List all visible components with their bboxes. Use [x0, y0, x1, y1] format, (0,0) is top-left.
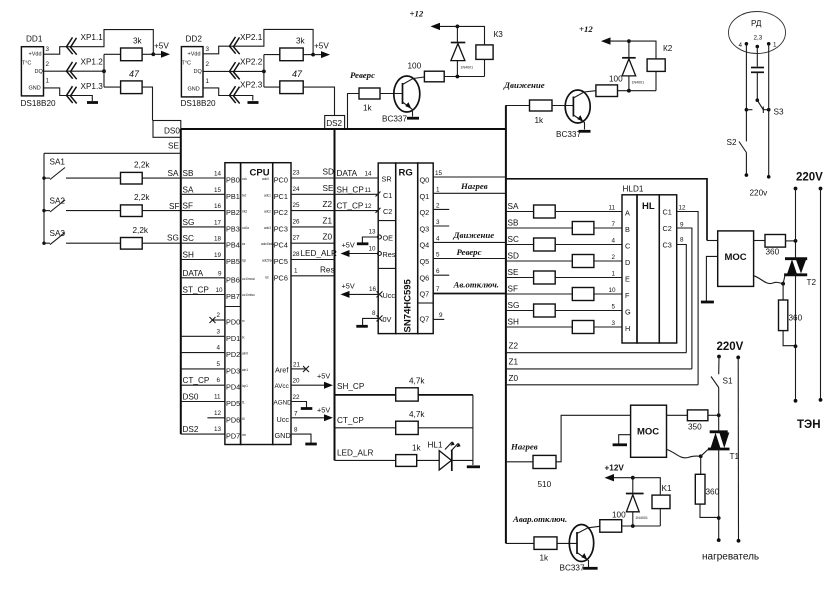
svg-text:xck: xck	[242, 177, 247, 181]
wire PC0 net SD / pin 23	[291, 168, 335, 179]
svg-text:SD: SD	[508, 252, 519, 261]
svg-text:icp1: icp1	[242, 384, 248, 388]
svg-text:14: 14	[214, 171, 222, 178]
display HLD1 outline	[622, 185, 677, 344]
wire row PD1 / pin 3	[181, 328, 225, 336]
wire bus to 510 resistor	[506, 461, 533, 463]
svg-text:DS18B20: DS18B20	[181, 99, 216, 108]
resistor 47 (DD2 series)	[264, 86, 280, 88]
wire Q7 pin 7 net Ав.отключ	[433, 280, 506, 294]
svg-text:17: 17	[214, 219, 222, 226]
svg-text:BC337: BC337	[560, 564, 585, 573]
svg-text:360: 360	[706, 488, 720, 497]
wire Q1 pin 1 net Нагрев	[433, 181, 506, 193]
svg-text:3k: 3k	[296, 37, 306, 46]
wire PC2 net Z2 / pin 25	[291, 200, 335, 211]
node +5V junction DD1	[151, 52, 155, 56]
svg-text:6: 6	[217, 377, 221, 384]
svg-text:10: 10	[216, 287, 224, 294]
svg-text:S1: S1	[723, 377, 733, 386]
svg-text:Z2: Z2	[323, 200, 333, 209]
svg-text:ain0: ain0	[242, 352, 248, 356]
svg-text:PD5: PD5	[226, 399, 240, 408]
svg-text:2,2k: 2,2k	[134, 193, 150, 202]
svg-text:SA1: SA1	[50, 158, 66, 167]
node DS0 label box	[153, 121, 181, 138]
svg-text:Q4: Q4	[420, 241, 430, 250]
svg-text:2: 2	[612, 254, 616, 261]
svg-text:SN74HC595: SN74HC595	[403, 278, 414, 332]
optocoupler MOC (motor)	[718, 231, 754, 287]
svg-text:Ucc: Ucc	[383, 291, 396, 300]
svg-text:4: 4	[217, 345, 221, 352]
svg-text:adc2: adc2	[264, 210, 271, 214]
svg-text:100: 100	[609, 75, 623, 84]
wire row SH / pin 19	[181, 251, 225, 260]
svg-text:Q7: Q7	[420, 315, 430, 324]
triac T2	[783, 259, 816, 287]
svg-text:15: 15	[214, 187, 222, 194]
svg-text:DQ: DQ	[194, 69, 203, 75]
svg-text:A: A	[625, 209, 630, 218]
wire row SG with resistor to pin G 5	[506, 301, 622, 317]
resistor 510	[533, 455, 556, 468]
svg-text:OE: OE	[383, 234, 394, 243]
resistor 2,2k (SA1)	[66, 177, 121, 179]
power +5V arrow AVcc / pin 20	[291, 372, 333, 389]
svg-text:DS2: DS2	[183, 425, 199, 434]
wire row Z0 to C1	[506, 374, 698, 385]
svg-text:SA: SA	[168, 169, 179, 178]
wire Q4 pin 4 net Движение	[433, 230, 506, 242]
svg-text:D: D	[625, 258, 630, 267]
svg-text:2,3: 2,3	[754, 35, 763, 42]
svg-text:К3: К3	[494, 30, 504, 39]
node diode bottom junction K2	[627, 89, 631, 93]
svg-text:HL: HL	[642, 201, 655, 212]
svg-text:MOC: MOC	[637, 427, 659, 438]
svg-text:SE: SE	[508, 268, 519, 277]
svg-text:XP1.1: XP1.1	[81, 33, 104, 42]
ground (motor MOC)	[701, 301, 714, 304]
svg-text:Нагрев: Нагрев	[510, 442, 538, 452]
optocoupler MOC (heater)	[631, 405, 667, 457]
resistor 3k (DD2 pullup)	[264, 54, 280, 56]
svg-text:HLD1: HLD1	[623, 185, 644, 194]
wire row SB / pin 14	[181, 169, 225, 178]
svg-text:C: C	[625, 242, 630, 251]
pin Ucc 16 to +5V	[341, 282, 396, 301]
svg-text:16: 16	[369, 286, 377, 293]
svg-text:220V: 220V	[717, 341, 744, 353]
wire row ST_CP / pin 10	[181, 286, 225, 295]
svg-text:PD3: PD3	[226, 366, 240, 375]
relay K3	[438, 26, 503, 76]
svg-text:2,2k: 2,2k	[134, 161, 150, 170]
svg-text:9: 9	[680, 222, 684, 229]
svg-text:PC6: PC6	[274, 273, 288, 282]
svg-text:Авар.отключ.: Авар.отключ.	[512, 514, 567, 524]
svg-text:К2: К2	[663, 44, 673, 53]
svg-text:SC: SC	[508, 235, 519, 244]
svg-text:PB6: PB6	[226, 275, 240, 284]
ground GND / pin 8	[291, 427, 317, 444]
svg-text:10: 10	[609, 287, 617, 294]
svg-text:8: 8	[372, 310, 376, 317]
svg-text:PC3: PC3	[274, 224, 288, 233]
svg-text:PD0: PD0	[226, 318, 240, 327]
svg-text:1: 1	[206, 78, 210, 85]
wire PC6 net Res / pin 1	[291, 265, 335, 276]
svg-text:Движение: Движение	[503, 80, 545, 90]
node rail junction below T2	[794, 344, 798, 348]
transistor Q1 BC337 (Авар.отключ)	[560, 525, 600, 573]
svg-text:CT_CP: CT_CP	[337, 416, 364, 425]
wire left heater rail between junctions	[718, 415, 720, 540]
wire bus inner vertical DS2	[334, 129, 336, 460]
node 220V rail junction at 350	[717, 413, 721, 417]
svg-text:T2: T2	[807, 278, 817, 287]
terminal motor right 220v	[767, 175, 771, 179]
pin OE 13 tied low	[357, 229, 393, 244]
resistor 360 (T1 gate) vertical	[695, 456, 719, 517]
resistor 100 (Реверс collector)	[424, 71, 444, 82]
svg-text:+Vdd: +Vdd	[29, 52, 42, 58]
node +5V junction DD2	[311, 53, 315, 57]
svg-text:rst: rst	[265, 275, 269, 279]
pin Q2 stub 2	[433, 202, 449, 209]
svg-text:SE: SE	[168, 142, 179, 151]
svg-text:C1: C1	[383, 191, 392, 200]
switch S2	[727, 138, 747, 175]
terminal 220V right pair	[794, 187, 823, 191]
svg-text:B: B	[625, 225, 630, 234]
wire PC5 net LED_ALR / pin 28	[291, 249, 337, 260]
node diode bottom junction K3	[456, 75, 460, 79]
svg-text:SE: SE	[323, 184, 334, 193]
svg-text:SG: SG	[183, 218, 195, 227]
pin Q3 stub 3	[433, 219, 449, 226]
svg-text:ТЭН: ТЭН	[797, 419, 821, 431]
wire DD1 pin1 to ground	[44, 88, 93, 101]
svg-text:7: 7	[436, 286, 440, 293]
node DQ2 junction	[262, 70, 266, 74]
wire row LED_ALR 1k	[335, 444, 440, 467]
svg-text:adc3: adc3	[264, 226, 271, 230]
svg-text:26: 26	[293, 218, 301, 225]
svg-text:SF: SF	[183, 202, 193, 211]
svg-text:PC4: PC4	[274, 241, 288, 250]
wire DD1 DQ (pin2)	[44, 70, 105, 72]
svg-text:47: 47	[292, 69, 303, 79]
svg-text:510: 510	[538, 480, 552, 489]
svg-text:3: 3	[46, 46, 50, 53]
transistor Q2 BC337 (Движение)	[556, 90, 596, 139]
svg-text:int2: int2	[242, 210, 247, 214]
connector XP2.2	[230, 62, 240, 79]
svg-text:24: 24	[293, 186, 301, 193]
svg-text:XP1.3: XP1.3	[81, 82, 104, 91]
svg-text:Q1: Q1	[420, 192, 430, 201]
svg-text:16: 16	[214, 203, 222, 210]
svg-text:11: 11	[609, 205, 616, 212]
pin Q7' stub 9	[433, 312, 444, 319]
wire input DATA pin 14 to SR	[335, 169, 392, 184]
wire right heater rail	[737, 357, 739, 540]
transistor Q3 BC337 (Реверс)	[382, 76, 424, 124]
svg-text:4,7k: 4,7k	[409, 410, 425, 419]
node T1 gate junction	[699, 454, 703, 458]
svg-text:adc1: adc1	[264, 193, 271, 197]
svg-text:GND: GND	[188, 87, 200, 93]
svg-text:Aref: Aref	[275, 365, 289, 374]
svg-text:PD7: PD7	[226, 432, 240, 441]
svg-text:0V: 0V	[383, 315, 392, 324]
svg-text:DD1: DD1	[26, 35, 43, 44]
svg-text:PB2: PB2	[226, 208, 240, 217]
svg-text:G: G	[625, 308, 631, 317]
svg-text:DS0: DS0	[164, 127, 180, 136]
wire SA1 to bus, net SA	[142, 177, 181, 179]
power +5V arrow Ucc / pin 7	[291, 406, 333, 422]
svg-text:AGND: AGND	[274, 399, 293, 406]
switch S3	[756, 98, 784, 116]
svg-text:adc4/sda: adc4/sda	[261, 242, 274, 246]
node DQ1 junction	[102, 69, 106, 73]
led HL1	[428, 441, 473, 472]
pin PD6 stub / pin 12	[207, 410, 225, 418]
wire row SC with resistor to pin C 4	[506, 235, 622, 251]
terminal ТЭН pair	[794, 398, 823, 403]
svg-text:SF: SF	[169, 202, 179, 211]
wire 220V right rail	[820, 189, 822, 400]
ground (Движение emitter)	[579, 130, 591, 133]
svg-text:T°C: T°C	[22, 61, 32, 67]
svg-text:+5V: +5V	[342, 282, 355, 291]
wire MOC to T1 gate (wavy)	[667, 449, 701, 457]
svg-text:XP2.3: XP2.3	[240, 81, 263, 90]
resistor 100 (K1 collector)	[600, 520, 622, 533]
svg-text:2: 2	[206, 61, 210, 68]
svg-text:28: 28	[293, 251, 301, 258]
svg-text:oc1/mosi: oc1/mosi	[242, 277, 255, 281]
svg-text:100: 100	[408, 62, 422, 71]
svg-text:oc0a: oc0a	[242, 226, 249, 230]
svg-text:SD: SD	[323, 168, 334, 177]
resistor 2,2k (SA2)	[66, 210, 121, 212]
svg-text:1k: 1k	[540, 554, 550, 563]
connector XP1.3	[67, 86, 77, 103]
svg-text:7: 7	[294, 410, 298, 417]
svg-text:4: 4	[739, 42, 743, 49]
terminal 220V bottom pair	[717, 355, 740, 360]
svg-text:C2: C2	[663, 224, 672, 233]
wire row SA / pin 15	[181, 185, 225, 194]
svg-text:Q2: Q2	[420, 208, 430, 217]
svg-text:3: 3	[612, 320, 616, 327]
svg-text:T°C: T°C	[182, 61, 192, 67]
relay K1	[612, 478, 672, 526]
wire bus to 1k	[506, 542, 534, 544]
resistor 100 (Движение collector)	[596, 85, 618, 97]
svg-text:t0: t0	[242, 417, 245, 421]
wire row SE with resistor to pin E 1	[506, 268, 622, 284]
wire bus top edge	[181, 128, 506, 130]
wire row PD2 / pin 4	[181, 345, 225, 353]
svg-text:PB4: PB4	[226, 241, 240, 250]
svg-text:2: 2	[46, 61, 50, 68]
pin Aref no-connect / pin 21	[291, 361, 309, 372]
resistor 360 (T2 gate) vertical	[779, 284, 803, 346]
switch SA3	[42, 229, 65, 245]
wire DQ node vertical	[103, 54, 105, 87]
ground (K1 emitter)	[583, 567, 598, 570]
svg-text:PC5: PC5	[274, 257, 288, 266]
svg-text:GND: GND	[29, 86, 41, 92]
wire motor pins 2,3 (middle)	[756, 45, 760, 67]
svg-text:6: 6	[436, 268, 440, 275]
svg-text:2,2k: 2,2k	[133, 226, 149, 235]
svg-text:1N4001: 1N4001	[635, 516, 648, 520]
wire 47 to DS0 entry	[142, 87, 152, 120]
svg-text:Z0: Z0	[323, 233, 333, 242]
resistor 1k (K1 base)	[534, 537, 557, 550]
resistor 350 (T1 gate feed)	[667, 414, 688, 416]
svg-text:PD2: PD2	[226, 350, 240, 359]
svg-text:PD1: PD1	[226, 334, 240, 343]
svg-text:Z1: Z1	[323, 216, 333, 225]
svg-text:220v: 220v	[750, 189, 769, 198]
wire LED common ground vertical	[472, 395, 474, 465]
pin C1 12 wire to Z0	[663, 205, 699, 385]
wire DD2 DQ (pin2)	[203, 70, 264, 72]
svg-text:1: 1	[773, 42, 777, 49]
ground (DD2)	[248, 101, 259, 104]
svg-text:Реверс: Реверс	[457, 247, 482, 257]
svg-text:12: 12	[365, 203, 373, 210]
resistor 2,2k (SA3)	[66, 242, 121, 244]
triac T1	[701, 432, 740, 461]
pin Q6 stub 6	[433, 268, 449, 275]
wire row PD3 / pin 5	[181, 361, 225, 369]
svg-text:adc0: adc0	[262, 177, 269, 181]
motor РД ellipse	[729, 12, 786, 54]
wire bus to 1k base resistor	[348, 94, 360, 130]
svg-text:нагреватель: нагреватель	[702, 552, 759, 563]
svg-text:Q7: Q7	[420, 290, 430, 299]
wire SA2 to bus, net SF	[142, 210, 181, 212]
svg-text:DS2: DS2	[326, 119, 342, 128]
connector XP2.1	[230, 37, 240, 54]
svg-text:Q0: Q0	[420, 176, 430, 185]
svg-text:5: 5	[612, 304, 616, 311]
svg-text:ain1: ain1	[242, 368, 248, 372]
svg-text:F: F	[625, 291, 630, 300]
svg-text:1N4001: 1N4001	[632, 81, 645, 85]
wire DQ2 node vertical	[263, 55, 265, 88]
svg-text:SH: SH	[183, 251, 194, 260]
capacitor C (motor phase)	[751, 68, 764, 101]
svg-text:DS0: DS0	[183, 393, 199, 402]
svg-text:ST_CP: ST_CP	[183, 286, 210, 295]
svg-text:1N4001: 1N4001	[461, 66, 474, 70]
svg-text:4,7k: 4,7k	[409, 377, 425, 386]
svg-text:13: 13	[369, 229, 377, 236]
node 220V rail junction at 360	[794, 239, 798, 243]
node S3 left stub	[745, 108, 753, 112]
svg-text:3: 3	[217, 328, 221, 335]
resistor 3k (DD1 pullup)	[104, 53, 121, 55]
resistor 1k (Реверс base)	[359, 88, 380, 99]
svg-text:360: 360	[766, 248, 780, 257]
svg-text:PB3: PB3	[226, 224, 240, 233]
node diode bottom junction K1	[631, 524, 635, 528]
power +12 arrow (K2)	[579, 24, 611, 45]
svg-text:BC337: BC337	[382, 115, 407, 124]
relay K2	[609, 41, 673, 91]
svg-text:CT_CP: CT_CP	[183, 376, 210, 385]
svg-text:27: 27	[293, 235, 301, 242]
connector XP1.1	[67, 37, 77, 54]
wire 47 to DS2 entry	[303, 87, 334, 115]
svg-text:5: 5	[436, 252, 440, 259]
wire bus left edge	[180, 129, 182, 434]
wire row SH_CP 4.7k	[335, 377, 473, 402]
svg-text:350: 350	[688, 423, 702, 432]
svg-text:+5V: +5V	[317, 406, 330, 415]
svg-text:19: 19	[214, 252, 222, 259]
svg-text:Q6: Q6	[420, 273, 430, 282]
wire row SD with resistor to pin D 2	[506, 252, 622, 268]
svg-text:7: 7	[612, 221, 616, 228]
resistor 360 (T2 feed)	[754, 240, 765, 242]
svg-text:Res: Res	[320, 265, 335, 274]
svg-text:PC2: PC2	[274, 208, 288, 217]
svg-text:220V: 220V	[796, 172, 823, 184]
wire row SC / pin 18	[181, 234, 225, 243]
svg-text:10: 10	[369, 246, 377, 253]
svg-text:AVcc: AVcc	[275, 383, 289, 390]
node diode top junction K2	[627, 39, 631, 43]
power +12 arrow (K3)	[410, 9, 441, 31]
wire SE row to bus	[44, 152, 181, 154]
wire row CT_CP / pin 6	[181, 376, 225, 385]
svg-text:E: E	[625, 275, 630, 284]
svg-text:SH_CP: SH_CP	[337, 382, 365, 391]
diode VD3 1N4001	[451, 26, 473, 76]
wire row SF with resistor to pin F 10	[506, 285, 622, 301]
svg-text:PB5: PB5	[226, 257, 240, 266]
svg-text:11: 11	[214, 394, 221, 401]
svg-text:DD2: DD2	[186, 35, 203, 44]
wire PC1 net SE / pin 24	[291, 184, 335, 195]
wire Q0 net to motor MOC	[506, 179, 707, 241]
svg-text:S2: S2	[727, 138, 737, 147]
wire DD1 pin3 to XP1.1 and +5V rail	[44, 30, 154, 55]
terminal heater right	[737, 539, 741, 543]
wire row SG / pin 17	[181, 218, 225, 227]
svg-text:3k: 3k	[133, 37, 143, 46]
switch SA1	[42, 158, 65, 180]
svg-text:+5V: +5V	[314, 42, 329, 51]
wire motor pin4 (left)	[745, 42, 749, 141]
wire PC3 net Z1 / pin 26	[291, 216, 335, 227]
node DS2 label box	[325, 116, 345, 129]
svg-text:Z0: Z0	[509, 374, 519, 383]
svg-text:xin: xin	[242, 433, 246, 437]
svg-text:1k: 1k	[363, 104, 373, 113]
sensor DD1	[21, 35, 56, 109]
